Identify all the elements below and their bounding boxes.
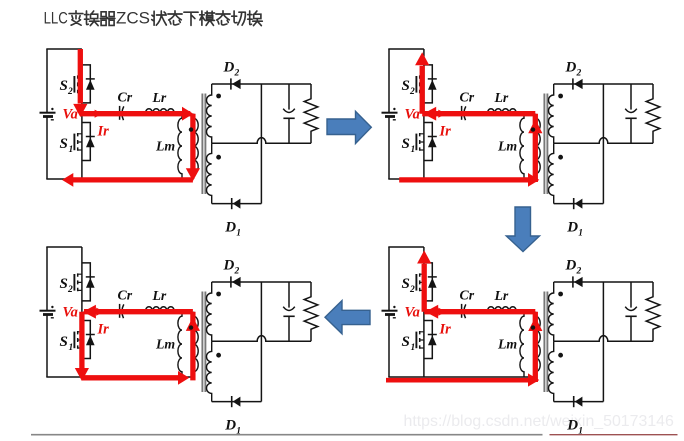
- polarity dot primary: [189, 325, 193, 329]
- arrowhead right at bottom corner: [528, 173, 539, 187]
- circuit 2 (top-right): [382, 49, 660, 239]
- arrowhead up at top rail: [415, 52, 429, 65]
- red current path circuit 1: [62, 49, 200, 187]
- wire red bottom rail rightward: [82, 375, 179, 380]
- title "LLC变换器ZCS状态下模态切换": [44, 8, 263, 27]
- arrowhead down into Va: [73, 104, 87, 117]
- arrowhead right at bottom corner: [528, 373, 539, 386]
- blue transition arrow down (2 to 4): [506, 207, 539, 252]
- svg-text:LLC: LLC: [44, 8, 68, 27]
- arrowhead left into Va: [83, 305, 96, 319]
- blue transition arrow left (4 to 3): [325, 301, 370, 334]
- wire red Va to primary top and down: [80, 114, 193, 169]
- circuit 4 (bottom-right): [382, 247, 660, 437]
- arrowhead right at primary corner: [182, 107, 193, 121]
- wire red S2 leg up: [420, 66, 425, 114]
- arrowhead down at bottom rail: [75, 368, 89, 381]
- wire red bottom rail leftward: [73, 177, 193, 182]
- polarity dot primary: [531, 325, 535, 329]
- arrowhead up on primary: [186, 317, 200, 331]
- arrowhead up on primary: [528, 119, 542, 133]
- arrowhead up on primary: [528, 317, 542, 331]
- wire red primary up and to Va: [424, 312, 535, 382]
- red current path circuit 2: [399, 52, 542, 187]
- red current path circuit 3: [75, 305, 200, 385]
- wire red S2 leg down: [78, 49, 83, 104]
- small Ir reference arrow: [95, 110, 103, 118]
- small Ir reference arrow: [96, 308, 104, 316]
- bottom rule gray: [31, 434, 543, 436]
- circuit 1 (top-left): [40, 49, 318, 239]
- arrowhead up at top rail: [417, 250, 431, 263]
- arrowhead left at bottom rail: [62, 173, 73, 187]
- wire red primary up and to Va: [84, 312, 193, 381]
- small Ir reference arrow: [438, 110, 446, 118]
- svg-text:ZCS: ZCS: [116, 8, 150, 27]
- polarity dot primary: [189, 127, 193, 131]
- small Ir reference arrow: [438, 308, 446, 316]
- bottom rule maroon: [550, 434, 678, 436]
- circuit 3 (bottom-left): [40, 247, 318, 437]
- arrowhead left into Va: [423, 107, 436, 121]
- wire red loop bottom-primary-Va: [399, 114, 535, 182]
- polarity dot primary: [531, 127, 535, 131]
- arrowhead down at primary bottom: [186, 168, 200, 181]
- wire red bottom rail under line: [386, 378, 535, 383]
- wire red Va down through S1: [79, 312, 84, 368]
- red current path circuit 4: [386, 250, 542, 386]
- wire red S2 leg up: [422, 264, 427, 312]
- arrowhead right at bottom corner: [178, 371, 189, 385]
- arrowhead left into Va: [425, 305, 438, 319]
- blue transition arrow right (1 to 2): [327, 111, 371, 143]
- svg-text:https://blog.csdn.net/weixin_5: https://blog.csdn.net/weixin_50173146: [404, 413, 674, 430]
